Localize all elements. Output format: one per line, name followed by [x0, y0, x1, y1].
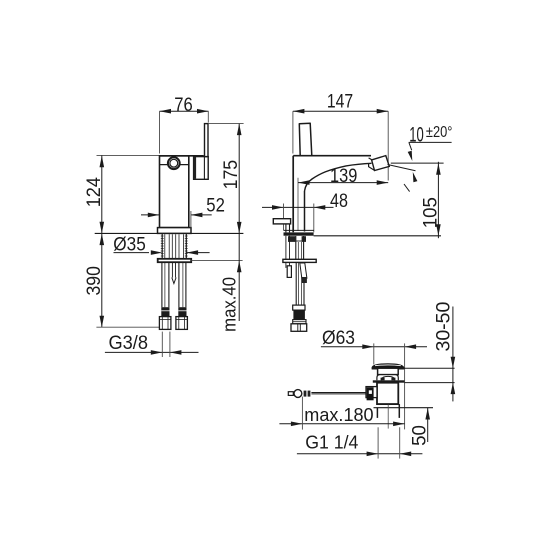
- dimension 105: [420, 162, 441, 238]
- lever handle blade (front view): [299, 123, 312, 156]
- svg-text:±20°: ±20°: [426, 124, 453, 141]
- svg-text:124: 124: [84, 177, 105, 208]
- dimension 175: [209, 124, 244, 234]
- dimension 76 top: [160, 95, 209, 154]
- svg-text:30-50: 30-50: [434, 302, 455, 352]
- mounting washer (front view): [283, 259, 316, 262]
- svg-text:G3/8: G3/8: [109, 333, 149, 354]
- hose connector nuts (side view): [159, 317, 187, 330]
- horizontal pull rod: [288, 390, 366, 398]
- hose crimp and connector nut (front view): [291, 305, 307, 331]
- dimension 147: [293, 92, 388, 181]
- svg-text:147: 147: [327, 92, 353, 113]
- centre line of body (front view): [297, 178, 299, 231]
- angle dimension 10±20°: [388, 123, 453, 191]
- dimension 390: [84, 233, 162, 327]
- deck / mounting surface (front view): [284, 230, 442, 235]
- svg-text:105: 105: [420, 197, 441, 228]
- hose crimp sleeves (side view): [161, 307, 186, 316]
- spout nozzle (front view): [369, 156, 390, 171]
- threaded shank (side view): [161, 234, 188, 259]
- dimension Ø63: [321, 328, 427, 430]
- drain tailpipe: [374, 404, 434, 429]
- dimension G1 1/4: [297, 427, 423, 458]
- flexible hoses (side view): [162, 262, 186, 307]
- deck / mounting surface (side view): [95, 232, 244, 234]
- svg-text:max.40: max.40: [220, 277, 240, 332]
- faucet body and spout profile (front view): [293, 156, 371, 233]
- base plinth (side view): [158, 228, 192, 234]
- dimension G3/8: [105, 332, 199, 357]
- flexible hose (front view): [296, 262, 304, 305]
- pull rod below deck (front view): [286, 236, 292, 278]
- faucet body (side view): [160, 156, 204, 228]
- dimension 50: [399, 408, 433, 446]
- svg-text:139: 139: [330, 166, 357, 187]
- svg-text:Ø63: Ø63: [322, 328, 355, 349]
- svg-text:175: 175: [221, 160, 242, 190]
- drain cap neck and seat: [377, 368, 398, 380]
- svg-text:390: 390: [84, 266, 105, 296]
- svg-text:50: 50: [409, 425, 430, 446]
- drain body: [366, 383, 398, 404]
- fixing hardware below deck (front view): [288, 236, 306, 259]
- svg-text:max.180: max.180: [304, 405, 373, 425]
- drain rubber washer: [373, 380, 455, 382]
- rod clamp screw: [367, 387, 374, 400]
- dimension 30-50: [434, 302, 456, 402]
- cartridge neck (side view): [193, 157, 208, 180]
- hoses and pull rod inside shank (side view): [165, 234, 184, 259]
- handle screw (side view): [168, 157, 180, 169]
- dimension Ø35: [113, 234, 209, 255]
- svg-text:52: 52: [206, 196, 225, 217]
- lever handle blade (side view): [205, 124, 209, 157]
- pull rod end (side view): [172, 262, 176, 283]
- drain cap (pop-up waste): [372, 364, 455, 369]
- pop-up rod knob (front view): [273, 219, 290, 233]
- svg-text:10: 10: [409, 123, 424, 146]
- dimension 48: [262, 191, 348, 232]
- dimension max.180: [279, 397, 404, 430]
- dimension max.40: [220, 233, 242, 332]
- dimension 139: [298, 166, 388, 187]
- dimension 52: [141, 196, 225, 228]
- dimension 124: [84, 155, 160, 233]
- mounting washer (side view): [158, 259, 243, 262]
- svg-text:48: 48: [330, 191, 348, 212]
- second hose stub (front view): [300, 263, 307, 283]
- svg-text:G1 1/4: G1 1/4: [305, 432, 358, 452]
- svg-text:76: 76: [174, 95, 193, 116]
